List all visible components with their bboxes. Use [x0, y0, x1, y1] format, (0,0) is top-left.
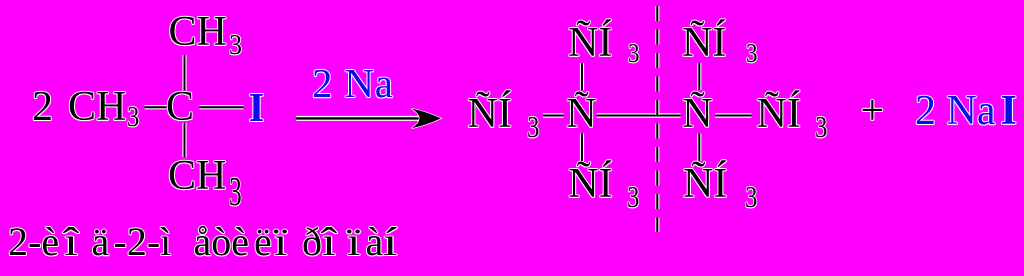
atom C (central carbon) — [166, 86, 194, 128]
bond C-I halo — [200, 105, 244, 109]
atom group CH (reactant left) — [68, 86, 126, 128]
subscript 3 (mid-right) — [815, 111, 827, 142]
subscript 3 (top-left) — [628, 40, 639, 67]
caption segment î — [64, 222, 78, 262]
bond CH3-C — [145, 106, 167, 108]
product central atom Ñ (left) — [566, 93, 596, 135]
bond C-I — [200, 106, 244, 108]
product group ÑÍ top-left — [568, 22, 612, 64]
product bond bottom-right vertical — [698, 134, 700, 162]
subscript 3 (reactant left CH3) — [127, 103, 139, 132]
product group ÑÍ bottom-right — [683, 163, 727, 205]
product group ÑÍ top-right — [682, 22, 726, 64]
product group ÑÍ mid-right — [757, 93, 801, 135]
coefficient 2 (reactant) — [32, 86, 53, 128]
product label 2 NaI (blue) — [915, 90, 995, 132]
caption segment í — [383, 222, 397, 262]
product bond top-right vertical — [698, 63, 700, 90]
product bond top-right vertical halo — [697, 63, 701, 90]
caption segment 2-è — [8, 222, 59, 262]
dashed divider halo — [655, 6, 659, 232]
caption segment åòè — [194, 222, 250, 262]
product bond bottom-left vertical halo — [580, 134, 584, 162]
reaction arrow shaft halo — [296, 116, 428, 121]
atom I (iodine, blue) — [249, 87, 265, 128]
bond C-CH3 top halo — [182, 55, 186, 91]
caption segment ï — [347, 222, 360, 262]
product bond C-C — [597, 115, 681, 117]
caption segment -2-ì — [114, 222, 172, 262]
reaction arrow head — [412, 109, 442, 129]
product bond bottom-left vertical — [581, 134, 583, 162]
caption segment ðî — [302, 222, 322, 262]
dashed divider — [656, 6, 658, 232]
product group ÑÍ mid-left — [468, 93, 512, 135]
subscript 3 (mid-left) — [527, 111, 539, 142]
caption segment àí — [366, 222, 384, 262]
subscript 3 (bottom-right) — [745, 181, 757, 212]
subscript 3 (top CH3) — [229, 31, 242, 60]
subscript 3 (top-right) — [746, 40, 757, 67]
caption segment î (of ðî) — [322, 222, 336, 262]
caption segment ëï — [254, 222, 272, 262]
reagent label 2 Na (blue, above arrow) — [312, 63, 394, 104]
atom group CH (bottom CH3) — [168, 155, 226, 197]
subscript 3 (bottom-left) — [627, 181, 639, 212]
product bond top-left vertical halo — [580, 63, 584, 90]
product bond top-left vertical — [581, 63, 583, 90]
product bond C-CH3 right — [715, 115, 752, 117]
product central atom Ñ (right) — [682, 93, 712, 135]
plus sign — [861, 90, 885, 132]
bond C-CH3 bottom halo — [182, 123, 186, 158]
caption segment ä — [92, 222, 110, 262]
bond C-CH3 top — [184, 55, 186, 91]
caption segment ï (of ëï) — [274, 222, 287, 262]
product bond CH3-C left — [543, 115, 564, 117]
product bond C-C halo — [597, 113, 681, 117]
atom group CH (top CH3) — [169, 11, 227, 53]
bond CH3-C halo — [145, 105, 167, 109]
subscript 3 (bottom CH3) — [229, 171, 242, 212]
reaction arrow shaft — [296, 117, 428, 119]
product bond bottom-right vertical halo — [697, 134, 701, 162]
product label I of NaI (blue) — [1001, 90, 1017, 132]
bond C-CH3 bottom — [184, 123, 186, 158]
product bond CH3-C left halo — [543, 113, 564, 117]
product group ÑÍ bottom-left — [568, 163, 612, 205]
product bond C-CH3 right halo — [715, 113, 752, 117]
